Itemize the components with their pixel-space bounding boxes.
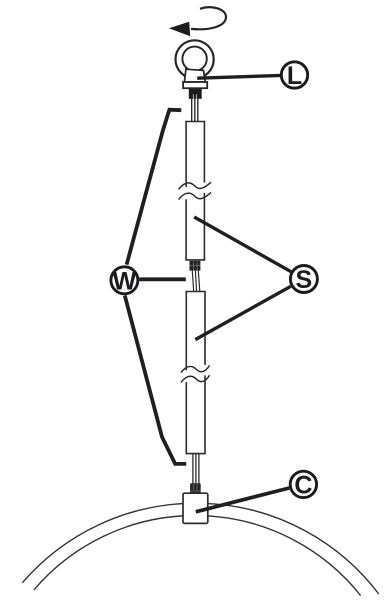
cable gland nut <box>190 483 201 493</box>
W leader (middle) <box>139 277 186 281</box>
W bracket top arm <box>127 110 182 265</box>
lower sleeve tube <box>186 292 206 454</box>
label circle W <box>111 267 138 296</box>
upper sleeve tube <box>185 122 205 260</box>
svg-text:S: S <box>296 266 313 294</box>
eye bolt collar <box>184 69 205 82</box>
break mark (upper tube) <box>179 182 212 199</box>
leader L <box>197 75 281 78</box>
hex nut (top) <box>189 89 202 99</box>
ceiling inner arc <box>34 515 361 595</box>
break mark (lower tube) <box>181 365 210 382</box>
eye bolt ring inner <box>182 47 206 71</box>
leader C <box>196 488 289 512</box>
label circle C <box>290 471 316 499</box>
wire (bottom section) <box>193 454 199 485</box>
leader S lower <box>195 286 290 339</box>
junction box C <box>183 493 208 523</box>
threaded rod / wire (top section) <box>192 99 198 122</box>
W bracket bottom arm <box>125 296 186 464</box>
rotation arrow <box>169 7 226 36</box>
eye bolt ring outer <box>176 40 214 78</box>
svg-text:L: L <box>287 62 302 90</box>
svg-text:W: W <box>113 267 137 295</box>
label circle S <box>290 266 317 295</box>
svg-text:C: C <box>294 471 312 499</box>
eye bolt flange <box>183 82 207 88</box>
leader S upper <box>194 217 291 272</box>
coupling nut <box>190 261 201 271</box>
ceiling outer arc <box>22 503 379 594</box>
wire bundle (middle section) <box>192 271 200 292</box>
label circle L <box>281 62 307 90</box>
